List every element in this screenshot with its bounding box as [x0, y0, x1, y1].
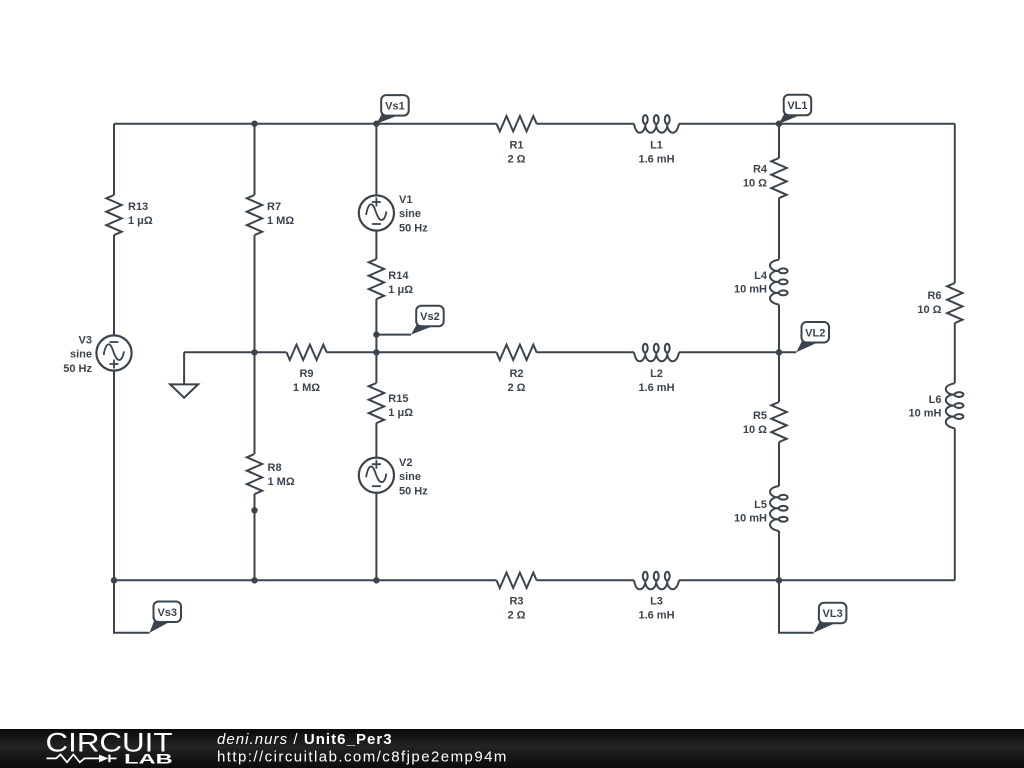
resistor R9	[287, 345, 327, 394]
svg-text:L2: L2	[650, 368, 663, 380]
resistor R4	[743, 158, 787, 198]
node junction dot 5	[373, 331, 379, 337]
svg-text:sine: sine	[399, 208, 421, 220]
svg-text:2 Ω: 2 Ω	[508, 610, 526, 622]
svg-text:R15: R15	[388, 393, 408, 405]
svg-text:10 Ω: 10 Ω	[917, 304, 941, 316]
CircuitLab logo	[46, 728, 173, 767]
svg-text:10 Ω: 10 Ω	[743, 178, 767, 190]
node flag Vs1	[377, 95, 409, 124]
wire Vs3 drop	[114, 580, 150, 632]
resistor R6	[917, 283, 962, 323]
voltage source V3	[63, 334, 131, 375]
svg-text:10 Ω: 10 Ω	[743, 424, 767, 436]
wire left rail	[113, 124, 115, 581]
svg-text:R14: R14	[388, 270, 409, 282]
svg-text:1.6 mH: 1.6 mH	[638, 610, 674, 622]
node flag VL1	[779, 95, 811, 124]
inductor L5	[734, 486, 788, 531]
svg-text:V1: V1	[399, 194, 412, 206]
resistor R14	[369, 259, 414, 299]
node junction dot 8	[111, 577, 117, 583]
resistor R7	[247, 195, 295, 235]
node flag VL2	[796, 322, 829, 352]
svg-text:L3: L3	[650, 596, 663, 608]
voltage source V1	[359, 194, 428, 235]
svg-text:2 Ω: 2 Ω	[508, 382, 526, 394]
svg-text:VL2: VL2	[805, 327, 825, 339]
svg-text:R9: R9	[299, 368, 313, 380]
node junction dot 4	[251, 349, 257, 355]
inductor L1	[634, 115, 679, 165]
node junction dot 6	[373, 349, 379, 355]
svg-text:R8: R8	[268, 462, 282, 474]
svg-text:sine: sine	[399, 471, 421, 483]
svg-text:V2: V2	[399, 457, 412, 469]
svg-text:http://circuitlab.com/c8fjpe2e: http://circuitlab.com/c8fjpe2emp94m	[217, 749, 508, 766]
inductor L4	[734, 260, 788, 305]
node junction dot 7	[776, 349, 782, 355]
node flag Vs2	[411, 306, 444, 335]
resistor R13	[106, 195, 153, 235]
svg-text:R1: R1	[509, 140, 523, 152]
wire middle rail	[184, 351, 796, 353]
wire column V1/R14/R15/V2	[375, 124, 377, 581]
svg-text:2 Ω: 2 Ω	[508, 154, 526, 166]
svg-text:R3: R3	[509, 596, 523, 608]
wire ground stub	[183, 352, 185, 384]
node junction dot 10	[373, 577, 379, 583]
footer bar	[0, 729, 1024, 768]
svg-text:VL1: VL1	[787, 100, 807, 112]
svg-text:10 mH: 10 mH	[908, 408, 941, 420]
svg-text:Vs2: Vs2	[420, 311, 440, 323]
svg-text:V3: V3	[79, 334, 92, 346]
inductor L2	[634, 344, 679, 394]
node junction dot 1	[251, 121, 257, 127]
resistor R3	[497, 573, 537, 622]
svg-text:L1: L1	[650, 140, 663, 152]
wire Vs2 stub	[376, 334, 411, 336]
svg-text:R4: R4	[753, 164, 768, 176]
resistor R1	[497, 116, 537, 166]
resistor R2	[497, 345, 537, 394]
resistor R15	[369, 383, 414, 423]
svg-text:1.6 mH: 1.6 mH	[638, 154, 674, 166]
svg-text:L6: L6	[929, 394, 942, 406]
resistor R5	[743, 402, 787, 442]
svg-text:L4: L4	[754, 270, 768, 282]
node junction dot 12	[251, 507, 257, 513]
wire column R4/L4/R5/L5	[778, 124, 780, 581]
wire right rail	[954, 124, 956, 581]
svg-text:VL3: VL3	[823, 608, 843, 620]
node junction dot 9	[251, 577, 257, 583]
svg-text:R2: R2	[509, 368, 523, 380]
svg-text:Vs1: Vs1	[385, 100, 405, 112]
svg-text:LAB: LAB	[124, 750, 173, 766]
svg-text:50 Hz: 50 Hz	[399, 485, 428, 497]
svg-text:50 Hz: 50 Hz	[399, 222, 428, 234]
ground	[170, 384, 198, 397]
svg-text:10 mH: 10 mH	[734, 513, 767, 525]
node junction dot 11	[776, 577, 782, 583]
node flag VL3	[814, 603, 847, 633]
svg-text:R7: R7	[267, 201, 281, 213]
footer text	[217, 731, 508, 766]
wire top rail	[114, 123, 955, 125]
node junction dot 3	[776, 121, 782, 127]
wire VL3 drop	[779, 580, 814, 632]
svg-text:1 μΩ: 1 μΩ	[128, 215, 153, 227]
svg-text:Vs3: Vs3	[157, 607, 177, 619]
svg-text:R5: R5	[753, 410, 767, 422]
svg-text:10 mH: 10 mH	[734, 284, 767, 296]
svg-text:R13: R13	[128, 201, 148, 213]
svg-text:L5: L5	[754, 499, 767, 511]
svg-text:1 MΩ: 1 MΩ	[268, 476, 295, 488]
svg-text:1 μΩ: 1 μΩ	[388, 407, 413, 419]
inductor L3	[634, 572, 679, 622]
svg-text:1 μΩ: 1 μΩ	[388, 284, 413, 296]
node junction dot 2	[373, 121, 379, 127]
wire bottom rail	[114, 579, 955, 581]
voltage source V2	[359, 457, 428, 498]
svg-text:R6: R6	[927, 290, 941, 302]
svg-text:deni.nurs / Unit6_Per3: deni.nurs / Unit6_Per3	[217, 731, 393, 748]
resistor R8	[247, 454, 295, 494]
svg-text:50 Hz: 50 Hz	[63, 363, 92, 375]
node flag Vs3	[150, 602, 182, 633]
svg-text:1 MΩ: 1 MΩ	[293, 382, 320, 394]
inductor L6	[908, 383, 963, 428]
svg-text:1.6 mH: 1.6 mH	[638, 382, 674, 394]
wire column R7/R8	[254, 124, 256, 581]
svg-text:1 MΩ: 1 MΩ	[267, 215, 294, 227]
svg-text:sine: sine	[70, 349, 92, 361]
